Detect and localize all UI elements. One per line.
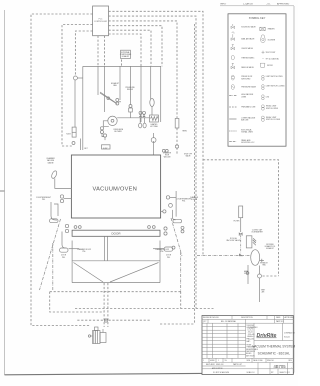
svg-text:HOT RAIL: HOT RAIL <box>150 125 158 128</box>
svg-text:40398: 40398 <box>210 360 215 362</box>
svg-text:DOOR: DOOR <box>112 232 122 236</box>
svg-text:USED ON: USED ON <box>216 364 224 366</box>
svg-text:NEEDLE VALVE: NEEDLE VALVE <box>241 66 254 69</box>
svg-text:KURZ: KURZ <box>103 148 107 150</box>
svg-text:APPROVED: APPROVED <box>277 3 290 6</box>
svg-text:HEATER: HEATER <box>268 28 275 31</box>
svg-text:PNL: PNL <box>167 257 170 259</box>
svg-text:PNL: PNL <box>182 201 185 203</box>
svg-text:SHEET 1 OF 1: SHEET 1 OF 1 <box>280 372 291 374</box>
svg-text:DESCRIPTION: DESCRIPTION <box>241 317 253 319</box>
svg-text:LIMIT SWITCH OPEN: LIMIT SWITCH OPEN <box>266 76 283 78</box>
svg-text:ROUGH: ROUGH <box>191 199 198 201</box>
svg-text:PRESSURE GAGE: PRESSURE GAGE <box>241 86 257 89</box>
svg-text:SWITCH CLOSED: SWITCH CLOSED <box>266 119 281 121</box>
svg-text:1: 1 <box>218 360 219 362</box>
svg-text:SYMBOL KEY: SYMBOL KEY <box>249 16 266 20</box>
svg-text:PNL: PNL <box>160 251 163 253</box>
svg-text:W-01-02: W-01-02 <box>284 337 290 339</box>
svg-text:SWITCH OPEN: SWITCH OPEN <box>266 108 279 110</box>
svg-text:1: 1 <box>203 360 204 362</box>
svg-text:LINES: LINES <box>241 97 247 99</box>
svg-text:DWG TOLER.: DWG TOLER. <box>246 356 256 358</box>
svg-text:VACUUM/OVEN: VACUUM/OVEN <box>93 187 138 193</box>
svg-text:RELIEF: RELIEF <box>127 89 133 91</box>
svg-text:- 01 -: - 01 - <box>266 4 271 6</box>
svg-text:LIMIT SWITCH CLOSED: LIMIT SWITCH CLOSED <box>266 85 286 87</box>
svg-text:KURZ: KURZ <box>66 133 70 135</box>
svg-text:BILL OF MATERIAL: BILL OF MATERIAL <box>221 320 236 323</box>
svg-text:4B705: 4B705 <box>273 364 286 369</box>
svg-text:FILTERED: FILTERED <box>266 244 274 246</box>
svg-text:BLOWER: BLOWER <box>268 39 276 41</box>
svg-text:FINISH: FINISH <box>247 345 252 347</box>
svg-text:SIZE: SIZE <box>247 360 251 362</box>
svg-text:VENT: VENT <box>261 290 265 292</box>
svg-text:PNL: PNL <box>62 257 65 259</box>
svg-text:.XXX=.005: .XXX=.005 <box>248 334 255 336</box>
svg-text:SCHEMATIC - B101HL: SCHEMATIC - B101HL <box>258 351 291 355</box>
svg-text:COMPRESSED: COMPRESSED <box>120 54 132 56</box>
svg-text:SOLENOID VALVE: SOLENOID VALVE <box>241 25 256 28</box>
svg-text:APPROVED: APPROVED <box>285 316 295 319</box>
svg-text:SWITCHED: SWITCHED <box>241 78 251 80</box>
svg-text:AIR LINE: AIR LINE <box>241 119 249 122</box>
svg-text:CHECKED BY: CHECKED BY <box>246 351 255 353</box>
svg-text:TEST POINT: TEST POINT <box>266 52 276 54</box>
svg-text:PNL: PNL <box>42 199 45 201</box>
svg-text:THIS DWG: THIS DWG <box>247 325 255 327</box>
svg-text:PNL: PNL <box>82 251 85 253</box>
svg-text:BLOWER: BLOWER <box>114 131 122 133</box>
svg-text:GAUGE: GAUGE <box>47 161 54 164</box>
svg-text:CONTROLLER: CONTROLLER <box>94 21 108 23</box>
svg-text:SIGNAL LINES: SIGNAL LINES <box>241 131 253 134</box>
svg-text:ISSUED: ISSUED <box>246 353 251 355</box>
svg-text:FILTER: FILTER <box>234 221 240 223</box>
svg-text:CHECK VALVE: CHECK VALVE <box>241 47 253 50</box>
svg-text:WT: WT <box>271 372 274 374</box>
svg-text:VACUUM VALVE: VACUUM VALVE <box>226 239 241 242</box>
svg-text:VACUUM THERMAL SYSTEM: VACUUM THERMAL SYSTEM <box>252 344 295 348</box>
svg-text:MAN. AIR VALVE: MAN. AIR VALVE <box>241 38 255 41</box>
svg-text:PART NO.: PART NO. <box>276 320 284 323</box>
svg-text:REVISION DWG NO.: REVISION DWG NO. <box>203 317 220 319</box>
svg-text:TP# (LOCATION): TP# (LOCATION) <box>266 57 280 60</box>
svg-text:MKT: MKT <box>84 148 87 150</box>
svg-text:REV#: REV# <box>221 4 227 6</box>
svg-text:FILTER: FILTER <box>267 65 273 67</box>
svg-text:TOL ON: TOL ON <box>248 328 253 330</box>
svg-text:PNEUMATIC LINE: PNEUMATIC LINE <box>241 106 256 109</box>
svg-text:L-CAP-03: L-CAP-03 <box>243 3 253 6</box>
svg-text:DWG NO.: DWG NO. <box>267 360 275 362</box>
svg-text:SHUT OFF: SHUT OFF <box>184 154 192 156</box>
svg-text:.XX=.01: .XX=.01 <box>248 332 253 334</box>
svg-text:MOUNTING LOC: MOUNTING LOC <box>241 142 255 144</box>
svg-text:THERMOSTATIC: THERMOSTATIC <box>241 56 255 59</box>
